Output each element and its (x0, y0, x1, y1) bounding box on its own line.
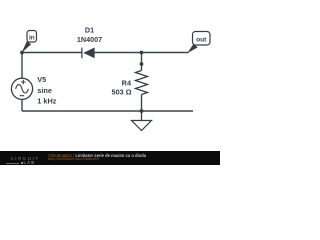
node junction dot bottom (140, 109, 144, 113)
svg-text:R4: R4 (122, 79, 132, 88)
svg-text:out: out (196, 37, 207, 44)
V5 minus sign (20, 95, 24, 97)
svg-text:V5: V5 (37, 75, 46, 84)
node R4 terminal dot (140, 62, 144, 66)
diode D1 triangle (83, 48, 94, 59)
ground stub (141, 111, 143, 121)
footer bar (0, 151, 220, 165)
voltage source V5 circle (11, 78, 32, 99)
flag in leader wedge (22, 41, 32, 53)
diode D1 cathode bar (81, 48, 83, 59)
svg-text:sine: sine (37, 86, 52, 95)
attribution line 1 (48, 153, 146, 158)
CircuitLab logo text (11, 156, 40, 161)
node junction dot left (20, 51, 24, 55)
flag out leader wedge (187, 44, 198, 53)
svg-text:in: in (29, 34, 35, 41)
V5 sine wave (16, 85, 29, 93)
flag out box (193, 32, 211, 46)
wire bottom horizontal (22, 110, 193, 112)
wire top-right horizontal (95, 52, 189, 54)
V5 plus sign (21, 80, 25, 84)
wire R4 bottom lead (141, 95, 143, 112)
wire top-left horizontal (22, 52, 82, 54)
resistor R4 zigzag (136, 71, 148, 95)
flag in box (27, 31, 37, 43)
wire left vertical lower (21, 99, 23, 111)
ground triangle (132, 121, 152, 131)
svg-text:1 kHz: 1 kHz (37, 97, 56, 106)
attribution line 2 (48, 156, 99, 161)
svg-text:D1: D1 (85, 26, 94, 35)
wire left vertical (21, 53, 23, 79)
svg-text:1N4007: 1N4007 (77, 35, 102, 44)
wire R4 top lead (141, 53, 143, 71)
svg-text:503 Ω: 503 Ω (112, 88, 132, 97)
node junction dot top of R4 (140, 51, 144, 55)
